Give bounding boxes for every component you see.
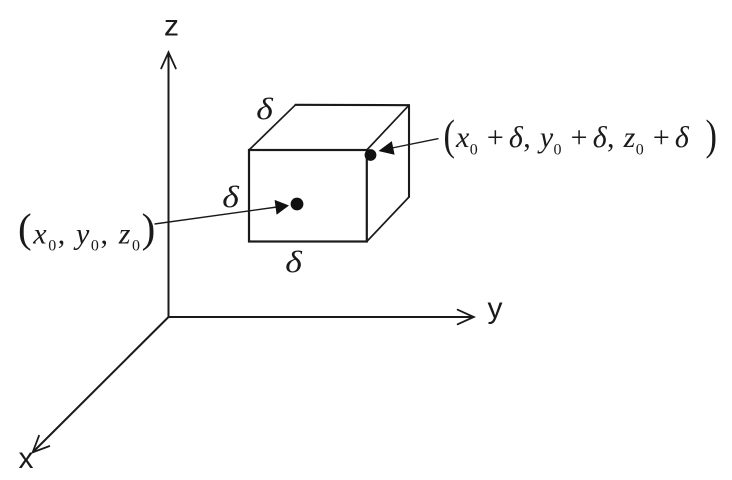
x axis arrowhead	[33, 436, 50, 453]
point (x0,y0,z0) dot	[291, 198, 304, 211]
z axis arrowhead	[161, 52, 176, 68]
svg-text:x: x	[19, 442, 34, 475]
cube front face	[249, 150, 367, 242]
cube edge FBR-BBR	[367, 197, 409, 242]
pointer arrowhead left	[275, 200, 289, 215]
x axis	[33, 317, 169, 452]
y axis arrowhead	[458, 310, 474, 325]
cube edge FTL-BTL	[249, 105, 296, 150]
pointer arrowhead right	[379, 141, 395, 155]
svg-text:δ: δ	[285, 245, 302, 279]
svg-text:(: (	[444, 112, 455, 159]
svg-text:(x0, y0, z0): (x0, y0, z0)	[18, 205, 157, 255]
pointer line from left label	[155, 207, 278, 224]
svg-text:z: z	[164, 10, 179, 43]
svg-text:δ: δ	[256, 92, 273, 126]
cube back top edge BTL-BTR	[296, 104, 410, 106]
svg-text:δ: δ	[222, 180, 239, 214]
svg-text:): )	[706, 112, 717, 159]
point (x0+d,y0+d,z0+d) dot	[365, 149, 377, 161]
cube back right edge BTR-BBR	[408, 105, 410, 197]
svg-text:y: y	[488, 292, 503, 325]
svg-text:x0 + δ, y0 + δ, z0 + δ: x0 + δ, y0 + δ, z0 + δ	[455, 121, 690, 159]
z axis	[168, 53, 170, 318]
y axis	[169, 316, 474, 318]
cube edge FTR-BTR	[367, 105, 409, 150]
pointer line from right label	[392, 139, 439, 148]
